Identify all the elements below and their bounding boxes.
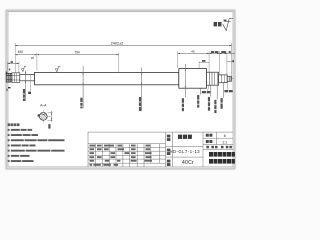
diameter dim at big section xyxy=(182,64,186,111)
short dim at end xyxy=(227,61,232,63)
roughness mark above neck xyxy=(21,66,26,71)
small dim below neck xyxy=(29,75,31,91)
svg-text:HD-GL7-1-13: HD-GL7-1-13 xyxy=(169,149,200,154)
chained dimension line 450 / 794 xyxy=(15,50,119,72)
title block texts xyxy=(167,134,235,166)
svg-text:26: 26 xyxy=(31,56,35,60)
sheet trim border (soft) xyxy=(6,10,234,168)
right side dimension line 45 etc xyxy=(178,50,235,76)
svg-text:A–A: A–A xyxy=(40,103,47,107)
inner drawing frame xyxy=(8,12,233,167)
main shaft body xyxy=(35,72,179,84)
roughness mark on body xyxy=(55,66,60,72)
section view A-A xyxy=(37,103,52,128)
company name line 2 xyxy=(209,159,235,164)
material column vertical chars xyxy=(167,160,171,163)
section cut mark A (top) xyxy=(6,72,8,75)
neck section xyxy=(20,74,35,80)
qty label + value xyxy=(206,134,209,137)
shaft centerline xyxy=(8,78,234,80)
diameter dim at body x=141.7 xyxy=(139,68,142,112)
right cluster diameter labels xyxy=(197,83,223,113)
page background xyxy=(0,0,240,180)
part name xyxy=(178,135,182,139)
svg-text:2402±2: 2402±2 xyxy=(111,42,124,46)
title block + signature table grid xyxy=(88,132,233,167)
company name line 1 xyxy=(209,152,235,157)
diameter dim at body x=83 xyxy=(80,66,83,108)
dimension arrowheads xyxy=(8,45,232,121)
svg-text:794: 794 xyxy=(74,51,80,55)
leader note 3-M12 xyxy=(202,85,210,93)
technical notes block xyxy=(8,123,65,162)
svg-text:8: 8 xyxy=(224,134,226,138)
svg-text:45: 45 xyxy=(191,50,195,54)
name column vertical chars xyxy=(167,135,171,138)
overall dimension 2402 xyxy=(15,42,231,76)
small dim near big section top xyxy=(199,60,209,69)
step section 4 xyxy=(219,75,228,83)
diameter dim at neck xyxy=(23,71,26,102)
sheet count row xyxy=(206,146,209,149)
surface roughness general note (top right): 其余 + symbol xyxy=(214,19,234,31)
step section 3 with groove xyxy=(207,72,219,85)
leader note 2-M12 xyxy=(224,83,232,92)
shaft left end piece (hatched/threaded) xyxy=(6,73,20,83)
section cut mark A (bottom) xyxy=(6,87,11,92)
svg-text:1:1: 1:1 xyxy=(222,141,227,145)
svg-text:40Cr: 40Cr xyxy=(182,160,194,166)
large diameter section xyxy=(179,69,207,89)
scale label + value xyxy=(206,140,209,143)
signature table cell texts xyxy=(90,145,153,166)
small end dimension 46 xyxy=(8,61,19,72)
small dim texts cluster xyxy=(211,51,214,53)
end stub xyxy=(227,76,231,81)
dwg no column vertical chars xyxy=(167,149,171,152)
svg-text:450: 450 xyxy=(18,50,24,54)
